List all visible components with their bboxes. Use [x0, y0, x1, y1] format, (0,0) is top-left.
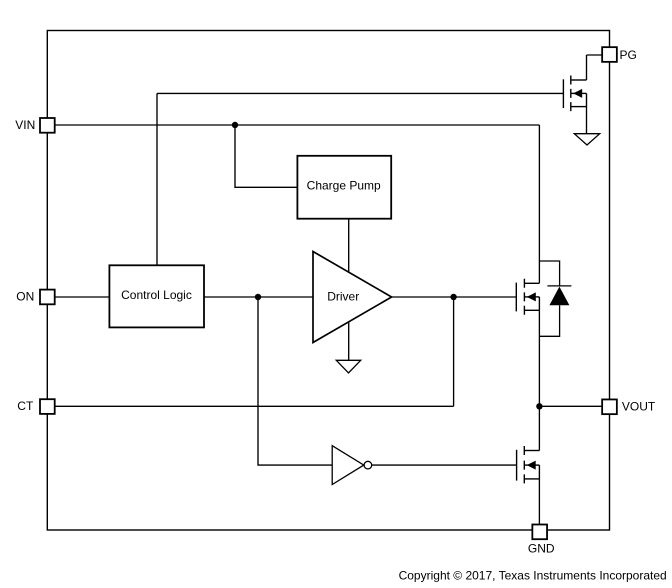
wire Q3 source to GND pin	[538, 479, 540, 524]
wire Control Logic to Driver	[204, 296, 313, 298]
node: VIN / charge-pump junction	[232, 122, 238, 128]
svg-text:CT: CT	[17, 399, 34, 413]
gate: inverter U2	[332, 446, 372, 485]
svg-text:VOUT: VOUT	[622, 400, 656, 414]
wire: driver output down to CT net	[453, 297, 455, 406]
diode D1 (Q2 body diode)	[539, 261, 571, 336]
wire Q1 source to ground	[586, 107, 588, 134]
node: VOUT junction	[536, 403, 542, 409]
wire Driver output to pass FET gate	[392, 296, 517, 298]
wire Driver to ground	[348, 322, 350, 360]
wire CT horizontal	[55, 405, 453, 407]
pin PG	[602, 47, 637, 62]
block: Driver (buffer amplifier)	[313, 252, 392, 343]
pin GND	[528, 525, 555, 556]
node: driver output junction	[450, 294, 456, 300]
wire: PG gate net horizontal	[157, 92, 563, 94]
IC boundary	[47, 31, 609, 531]
pin VIN	[15, 118, 54, 133]
svg-text:Charge Pump: Charge Pump	[307, 179, 381, 193]
pin CT	[17, 399, 54, 414]
wire VOUT node down to Q3 drain	[538, 406, 540, 450]
transistor Q2 (pass FET)	[516, 279, 539, 315]
pin VOUT	[602, 399, 656, 414]
wire PG pin to Q1 drain	[587, 55, 602, 80]
transistor Q3 (output discharge FET)	[517, 446, 540, 483]
ground (below Driver)	[336, 360, 360, 373]
transistor Q1 (PG open-drain FET)	[563, 76, 586, 112]
wire ON to Control Logic	[55, 296, 109, 298]
svg-text:GND: GND	[528, 542, 555, 556]
svg-text:PG: PG	[620, 48, 637, 62]
wire: charge pump input tap	[235, 125, 297, 187]
wire Charge Pump output to Driver	[348, 219, 350, 272]
node: control logic output junction	[255, 294, 261, 300]
ground (below Q1)	[574, 134, 599, 145]
svg-text:ON: ON	[16, 290, 34, 304]
wire: PG gate net vertical to Control Logic	[156, 93, 158, 265]
wire pass FET source down to VOUT node	[538, 310, 540, 406]
svg-text:Copyright © 2017, Texas Instru: Copyright © 2017, Texas Instruments Inco…	[399, 569, 667, 583]
wire inverter output to Q3 gate	[372, 464, 517, 466]
svg-text:VIN: VIN	[15, 118, 35, 132]
block: Control Logic	[109, 265, 204, 327]
svg-text:Control Logic: Control Logic	[121, 288, 192, 302]
wire: branch to inverter input	[258, 297, 332, 465]
svg-text:Driver: Driver	[327, 289, 359, 303]
wire VIN down to pass FET drain	[538, 125, 540, 283]
wire VIN horizontal	[55, 124, 539, 126]
wire VOUT node to VOUT pin	[539, 405, 601, 407]
block: Charge Pump	[297, 156, 391, 219]
pin ON	[16, 290, 54, 305]
